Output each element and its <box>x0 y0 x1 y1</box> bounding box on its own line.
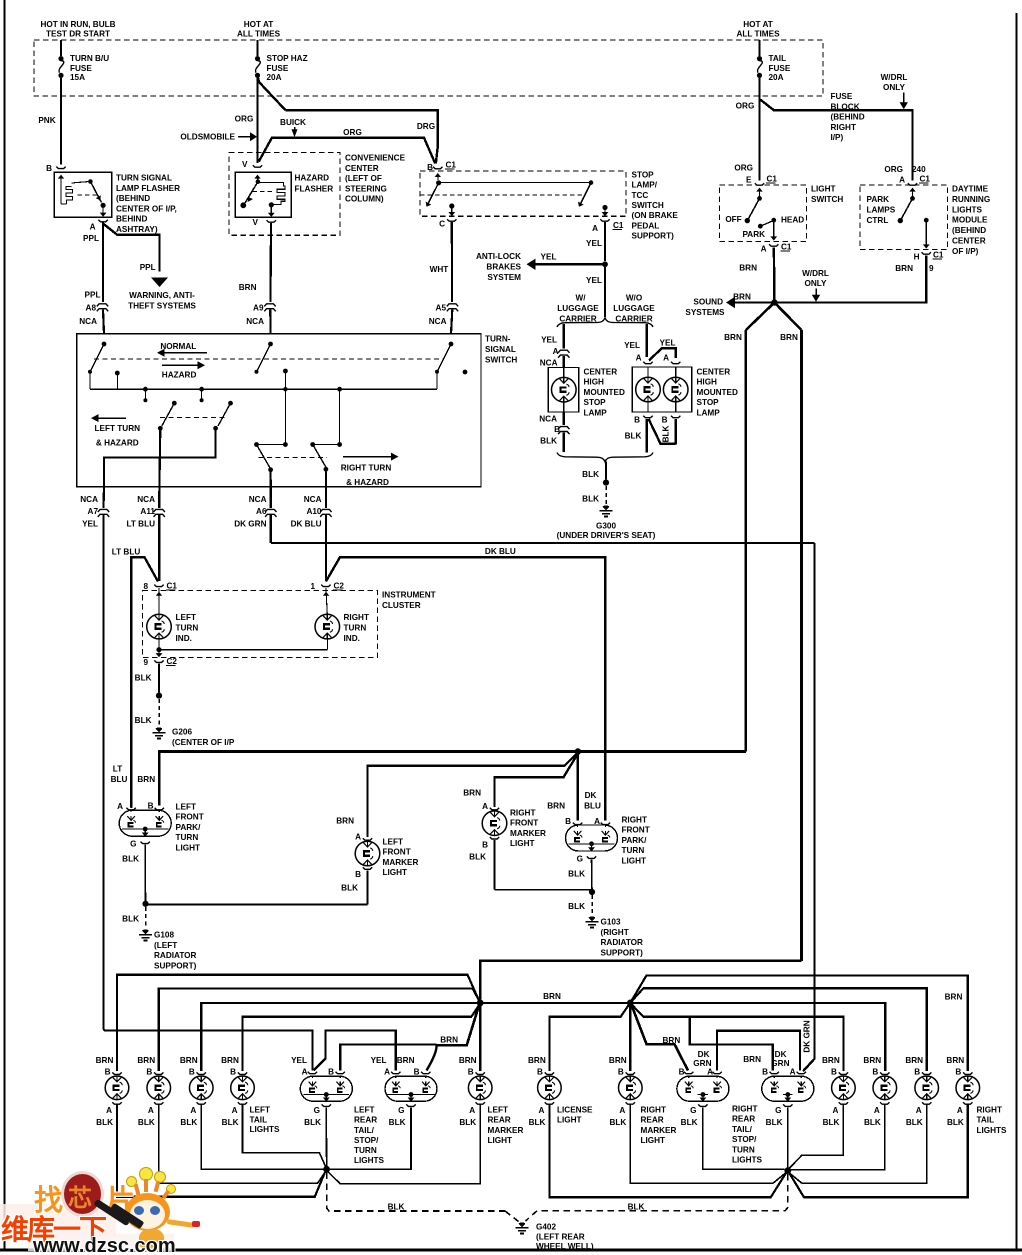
svg-text:STOP: STOP <box>697 398 720 407</box>
svg-text:LEFT: LEFT <box>250 1106 270 1115</box>
right tail light bulb 2 <box>880 1072 889 1074</box>
wire BLK stadium2 G to junction <box>330 1108 411 1170</box>
svg-text:FUSE: FUSE <box>769 64 791 73</box>
svg-text:W/DRL: W/DRL <box>881 73 908 82</box>
watermark mascot <box>125 1193 170 1231</box>
svg-text:HAZARD: HAZARD <box>295 174 330 183</box>
svg-text:CTRL: CTRL <box>867 216 889 225</box>
svg-text:B: B <box>679 1068 685 1077</box>
svg-text:TEST DR START: TEST DR START <box>46 30 110 39</box>
svg-text:LIGHT: LIGHT <box>383 868 408 877</box>
switch pivots row 1 <box>102 342 107 347</box>
svg-text:BRN: BRN <box>733 293 751 302</box>
svg-text:BLK: BLK <box>568 870 585 879</box>
svg-text:C1: C1 <box>767 175 778 184</box>
wire DK GRN down right side <box>803 543 815 1071</box>
svg-text:REAR: REAR <box>354 1116 377 1125</box>
svg-text:REAR: REAR <box>488 1116 511 1125</box>
wire DRG diagonal from stop haz fuse <box>258 76 286 110</box>
dashed BLK to G402 (left) <box>327 1173 505 1211</box>
svg-text:ORG: ORG <box>736 102 755 111</box>
svg-text:NORMAL: NORMAL <box>160 342 196 351</box>
svg-text:B: B <box>618 1068 624 1077</box>
svg-text:YEL: YEL <box>660 339 676 348</box>
svg-text:HOT AT: HOT AT <box>743 20 773 29</box>
svg-text:(ON BRAKE: (ON BRAKE <box>632 211 679 220</box>
svg-text:B: B <box>146 1068 152 1077</box>
svg-text:B: B <box>914 1068 920 1077</box>
svg-text:YEL: YEL <box>291 1056 307 1065</box>
svg-text:NCA: NCA <box>246 317 264 326</box>
svg-text:STOP HAZ: STOP HAZ <box>267 54 308 63</box>
svg-text:BRN: BRN <box>609 1056 627 1065</box>
svg-text:LEFT: LEFT <box>383 838 403 847</box>
svg-text:LAMP: LAMP <box>584 408 608 417</box>
svg-text:B: B <box>482 841 488 850</box>
wire BLK bulb7 to junction <box>791 1105 885 1170</box>
svg-text:PARK/: PARK/ <box>176 823 202 832</box>
wire BRN from DRL to junction <box>774 255 926 302</box>
svg-text:G206: G206 <box>172 728 192 737</box>
svg-text:(BEHIND: (BEHIND <box>831 113 865 122</box>
svg-text:PNK: PNK <box>38 116 55 125</box>
wire BRN park bus <box>159 752 746 806</box>
wire BRN to junction (left) <box>437 1005 480 1045</box>
svg-text:A: A <box>899 176 905 185</box>
svg-text:GRN: GRN <box>771 1059 789 1068</box>
watermark weiku yixia <box>1 1208 105 1248</box>
svg-text:(LEFT REAR: (LEFT REAR <box>536 1233 585 1242</box>
svg-text:CENTER: CENTER <box>345 164 379 173</box>
wire BRN bus row 1 <box>117 975 479 1071</box>
wire LT BLU branch <box>131 557 158 805</box>
dashed BLK to G402 (right) <box>537 1174 788 1211</box>
svg-text:IND.: IND. <box>176 634 192 643</box>
svg-text:G: G <box>314 1106 320 1115</box>
svg-text:DK: DK <box>775 1050 787 1059</box>
wire BLK right marker to junction <box>630 1105 786 1184</box>
svg-text:LIGHT: LIGHT <box>176 843 201 852</box>
svg-text:G: G <box>577 855 583 864</box>
svg-text:INSTRUMENT: INSTRUMENT <box>382 591 436 600</box>
svg-text:RIGHT: RIGHT <box>510 809 535 818</box>
svg-text:LIGHTS: LIGHTS <box>732 1156 763 1165</box>
wire BLK left marker to junction <box>328 1105 480 1184</box>
wire BRN left branch down to park bus <box>745 330 748 752</box>
wire BLK bulb2 to junction <box>159 1105 326 1184</box>
svg-text:LICENSE: LICENSE <box>557 1106 593 1115</box>
turn signal switch (box) <box>77 334 481 487</box>
svg-text:ORG: ORG <box>884 165 903 174</box>
sound systems arrow <box>733 301 774 303</box>
junction to ABS <box>602 261 608 267</box>
wire BRN right branch down to rear <box>800 330 803 961</box>
svg-text:BLK: BLK <box>609 1118 626 1127</box>
svg-text:G402: G402 <box>536 1223 556 1232</box>
svg-text:C2: C2 <box>334 582 345 591</box>
wire BRN right stadium 3 B <box>632 1005 688 1070</box>
svg-text:BRN: BRN <box>863 1056 881 1065</box>
svg-text:A10: A10 <box>306 507 321 516</box>
svg-text:B: B <box>46 164 52 173</box>
wire BRN to left front marker <box>368 753 578 838</box>
connector 9 C2 <box>154 660 163 662</box>
svg-text:TURN: TURN <box>344 624 367 633</box>
svg-text:TURN: TURN <box>354 1146 377 1155</box>
svg-text:BRN: BRN <box>724 333 742 342</box>
svg-text:LEFT: LEFT <box>176 803 196 812</box>
license light bulb <box>545 1072 554 1074</box>
convenience center (dashed box) <box>229 153 340 236</box>
svg-text:B: B <box>762 1068 768 1077</box>
wire to A6 output <box>270 470 272 487</box>
ground G103 <box>589 917 596 922</box>
svg-text:BRAKES: BRAKES <box>486 263 521 272</box>
svg-text:BRN: BRN <box>239 283 257 292</box>
merge brace <box>557 453 653 462</box>
watermark backing strips <box>0 1204 116 1237</box>
wire BLK to G103 junction <box>495 889 593 891</box>
svg-text:HOT AT: HOT AT <box>244 20 274 29</box>
connector A10 DK BLU <box>325 487 327 508</box>
svg-text:FUSE: FUSE <box>831 92 853 101</box>
svg-text:NCA: NCA <box>80 495 98 504</box>
svg-text:HOT IN RUN, BULB: HOT IN RUN, BULB <box>40 20 115 29</box>
svg-text:CENTER: CENTER <box>584 368 618 377</box>
right rear stop/turn stadium 3 <box>684 1072 693 1074</box>
svg-text:BLK: BLK <box>823 1118 840 1127</box>
svg-text:ONLY: ONLY <box>883 83 906 92</box>
svg-text:A: A <box>874 1106 880 1115</box>
svg-text:TAIL: TAIL <box>769 54 787 63</box>
wire ORG stop-haz fuse down <box>256 78 258 163</box>
svg-text:DK BLU: DK BLU <box>291 520 322 529</box>
terminals A A <box>643 362 652 364</box>
svg-text:(BEHIND: (BEHIND <box>116 194 150 203</box>
wire BRN stadium 4 B feed <box>690 1017 773 1071</box>
svg-text:BUICK: BUICK <box>280 118 306 127</box>
svg-text:SIGNAL: SIGNAL <box>485 345 516 354</box>
center high mounted stop lamp (dual) <box>632 367 691 412</box>
left tail light bulb 4 <box>238 1072 247 1074</box>
svg-text:B: B <box>328 1068 334 1077</box>
svg-text:A9: A9 <box>253 304 264 313</box>
svg-text:STOP: STOP <box>632 171 655 180</box>
svg-text:HIGH: HIGH <box>584 378 605 387</box>
svg-text:OF I/P): OF I/P) <box>952 247 979 256</box>
svg-text:FRONT: FRONT <box>622 826 650 835</box>
wire DK GRN bus <box>271 542 815 544</box>
svg-text:BLK: BLK <box>681 1118 698 1127</box>
terminal C <box>449 203 454 208</box>
svg-text:20A: 20A <box>769 73 784 82</box>
svg-text:BRN: BRN <box>96 1056 114 1065</box>
svg-text:NCA: NCA <box>249 495 267 504</box>
svg-text:BRN: BRN <box>905 1056 923 1065</box>
svg-text:YEL: YEL <box>541 253 557 262</box>
svg-text:BLK: BLK <box>947 1118 964 1127</box>
svg-text:A: A <box>619 1106 625 1115</box>
wire to A7 output <box>104 428 216 486</box>
svg-text:BLK: BLK <box>341 884 358 893</box>
svg-text:BLK: BLK <box>906 1118 923 1127</box>
svg-text:STEERING: STEERING <box>345 184 387 193</box>
svg-text:ORG: ORG <box>734 164 753 173</box>
svg-text:B: B <box>148 802 154 811</box>
watermark magnifier <box>61 1171 104 1217</box>
svg-text:BLK: BLK <box>540 437 557 446</box>
svg-text:B: B <box>831 1068 837 1077</box>
svg-text:BLK: BLK <box>138 1118 155 1127</box>
svg-text:MARKER: MARKER <box>641 1126 677 1135</box>
svg-text:(UNDER DRIVER'S SEAT): (UNDER DRIVER'S SEAT) <box>557 531 656 540</box>
svg-text:LUGGAGE: LUGGAGE <box>613 304 655 313</box>
svg-text:TAIL/: TAIL/ <box>354 1126 375 1135</box>
svg-text:THEFT SYSTEMS: THEFT SYSTEMS <box>128 301 196 310</box>
svg-text:B: B <box>414 1068 420 1077</box>
wire DK BLU branch <box>326 557 605 820</box>
svg-text:HAZARD: HAZARD <box>162 371 197 380</box>
svg-text:TURN B/U: TURN B/U <box>70 54 109 63</box>
svg-text:SWITCH: SWITCH <box>811 195 843 204</box>
svg-text:CENTER: CENTER <box>952 237 986 246</box>
wire PNK from turn fuse to flasher <box>60 96 62 165</box>
svg-text:BLK: BLK <box>388 1203 405 1212</box>
svg-text:YEL: YEL <box>371 1056 387 1065</box>
svg-text:NCA: NCA <box>304 495 322 504</box>
svg-text:BRN: BRN <box>180 1056 198 1065</box>
instrument cluster (dashed box) <box>143 591 378 658</box>
svg-text:DRG: DRG <box>417 122 435 131</box>
svg-text:PPL: PPL <box>85 291 101 300</box>
fuse block (dashed box) <box>34 40 823 96</box>
svg-text:LAMP/: LAMP/ <box>632 181 658 190</box>
svg-text:LIGHTS: LIGHTS <box>952 205 983 214</box>
wire ORG tail fuse to light switch <box>758 78 760 181</box>
svg-text:LIGHT: LIGHT <box>811 185 836 194</box>
wire BRN bus row 3 <box>201 1003 885 1071</box>
svg-text:TAIL: TAIL <box>977 1116 995 1125</box>
gang dashed line 1 <box>94 358 443 360</box>
svg-text:BLK: BLK <box>122 855 139 864</box>
fixed contacts row 1 <box>115 371 120 376</box>
wire BRN to A9 <box>269 223 272 302</box>
svg-text:RIGHT: RIGHT <box>641 1106 666 1115</box>
svg-text:BLK: BLK <box>304 1118 321 1127</box>
svg-text:YEL: YEL <box>586 239 602 248</box>
wire BLK bulb9 to junction <box>790 1105 968 1198</box>
connector A9 <box>264 304 275 307</box>
svg-text:MARKER: MARKER <box>510 829 546 838</box>
svg-text:A: A <box>190 1106 196 1115</box>
wire BRN cross link <box>480 961 801 1000</box>
svg-text:G: G <box>775 1106 781 1115</box>
junction BRN rear right <box>627 1000 634 1007</box>
svg-text:BRN: BRN <box>463 789 481 798</box>
wire PPL down to A8 <box>102 223 104 303</box>
right tail light bulb 1 <box>839 1072 848 1074</box>
svg-text:CENTER OF I/P,: CENTER OF I/P, <box>116 204 177 213</box>
svg-text:LAMP: LAMP <box>697 408 721 417</box>
wire YEL rear bus <box>104 1029 313 1070</box>
svg-text:& HAZARD: & HAZARD <box>346 478 389 487</box>
svg-text:YEL: YEL <box>541 336 557 345</box>
switch contacts <box>428 183 439 205</box>
ground G300 <box>603 506 610 511</box>
svg-text:LIGHTS: LIGHTS <box>354 1156 385 1165</box>
svg-text:BRN: BRN <box>822 1056 840 1065</box>
svg-text:& HAZARD: & HAZARD <box>96 439 139 448</box>
svg-text:TURN: TURN <box>176 624 199 633</box>
svg-text:H: H <box>914 253 920 262</box>
bus contact stubs <box>143 387 148 392</box>
svg-text:(LEFT OF: (LEFT OF <box>345 174 382 183</box>
svg-text:OFF: OFF <box>725 215 741 224</box>
svg-text:WARNING, ANTI-: WARNING, ANTI- <box>129 291 195 300</box>
svg-text:A5: A5 <box>436 304 447 313</box>
svg-text:RADIATOR: RADIATOR <box>154 951 197 960</box>
svg-text:BLK: BLK <box>135 674 152 683</box>
junction BRN front lights <box>575 748 581 754</box>
svg-text:A: A <box>790 1068 796 1077</box>
svg-text:LT BLU: LT BLU <box>127 520 156 529</box>
wire BLK license to junction <box>549 1105 786 1198</box>
svg-text:IND.: IND. <box>344 634 360 643</box>
svg-text:C1: C1 <box>920 175 931 184</box>
svg-text:WHEEL WELL): WHEEL WELL) <box>536 1242 594 1251</box>
svg-text:G300: G300 <box>596 522 616 531</box>
svg-text:ASHTRAY): ASHTRAY) <box>116 225 158 234</box>
fuse TAIL 20A <box>759 40 761 56</box>
ground G402 <box>519 1223 526 1228</box>
svg-text:B: B <box>468 1068 474 1077</box>
watermark pian char <box>106 1177 135 1219</box>
svg-text:BLK: BLK <box>222 1118 239 1127</box>
svg-text:DK GRN: DK GRN <box>234 520 266 529</box>
svg-text:I/P): I/P) <box>831 133 844 142</box>
svg-text:BRN: BRN <box>440 1036 458 1045</box>
svg-text:BLK: BLK <box>864 1118 881 1127</box>
wire ORG bus to stop lamp switch <box>259 138 435 164</box>
svg-text:SUPPORT): SUPPORT) <box>601 948 644 957</box>
svg-text:BLK: BLK <box>459 1118 476 1127</box>
svg-text:BRN: BRN <box>946 1056 964 1065</box>
svg-text:RIGHT: RIGHT <box>977 1106 1002 1115</box>
svg-text:W/O: W/O <box>626 294 643 303</box>
svg-text:A: A <box>707 1068 713 1077</box>
svg-text:A: A <box>761 245 767 254</box>
svg-text:BRN: BRN <box>945 993 963 1002</box>
svg-text:C1: C1 <box>167 582 178 591</box>
svg-text:A: A <box>90 223 96 232</box>
connector A7 YEL <box>102 487 105 508</box>
svg-text:G: G <box>130 840 136 849</box>
svg-text:BRN: BRN <box>663 1036 681 1045</box>
svg-text:20A: 20A <box>267 73 282 82</box>
svg-text:TCC: TCC <box>632 191 649 200</box>
svg-text:A7: A7 <box>88 507 99 516</box>
svg-text:(RIGHT: (RIGHT <box>601 928 629 937</box>
svg-text:LT BLU: LT BLU <box>112 548 141 557</box>
svg-text:LEFT: LEFT <box>354 1106 374 1115</box>
svg-text:REAR: REAR <box>732 1115 755 1124</box>
svg-text:BLK: BLK <box>135 716 152 725</box>
wire BLK bulb8 to junction <box>789 1105 927 1184</box>
svg-text:COLUMN): COLUMN) <box>345 195 384 204</box>
svg-text:BLK: BLK <box>389 1118 406 1127</box>
internal bus <box>90 388 437 390</box>
svg-text:MODULE: MODULE <box>952 216 988 225</box>
terminal A C1 bottom <box>769 244 778 246</box>
svg-text:NCA: NCA <box>429 317 447 326</box>
svg-text:MOUNTED: MOUNTED <box>584 388 625 397</box>
wire BLK stadium3 G to junction <box>703 1108 785 1170</box>
svg-text:LEFT: LEFT <box>176 613 196 622</box>
svg-text:LIGHT: LIGHT <box>510 839 535 848</box>
svg-text:STOP/: STOP/ <box>732 1135 757 1144</box>
svg-text:BRN: BRN <box>528 1056 546 1065</box>
svg-text:LIGHTS: LIGHTS <box>977 1126 1008 1135</box>
svg-text:TURN: TURN <box>732 1145 755 1154</box>
wire BRN to left rear marker <box>479 1003 481 1071</box>
left tail light bulb 1 <box>112 1072 121 1074</box>
right rear stop/turn stadium 4 <box>770 1072 779 1074</box>
svg-text:BRN: BRN <box>895 264 913 273</box>
wire BRN to right rear marker <box>629 1003 631 1071</box>
svg-text:TURN-: TURN- <box>485 335 511 344</box>
wire BLK bulb6 to junction <box>789 1105 843 1169</box>
svg-text:PARK: PARK <box>742 230 765 239</box>
page border bottom <box>0 1248 1022 1251</box>
svg-text:YEL: YEL <box>624 341 640 350</box>
svg-text:DK: DK <box>585 791 597 800</box>
watermark zhao char <box>34 1177 63 1219</box>
svg-text:BRN: BRN <box>397 1056 415 1065</box>
svg-text:ORG: ORG <box>343 128 362 137</box>
svg-text:A: A <box>592 224 598 233</box>
svg-text:BRN: BRN <box>336 817 354 826</box>
svg-text:LT: LT <box>113 765 122 774</box>
svg-text:A: A <box>469 1106 475 1115</box>
svg-text:RIGHT: RIGHT <box>622 816 647 825</box>
svg-text:A: A <box>538 1106 544 1115</box>
svg-text:A6: A6 <box>256 507 267 516</box>
wire BLK bulb4 to junction <box>243 1105 327 1168</box>
svg-text:BRN: BRN <box>137 775 155 784</box>
svg-text:LIGHT: LIGHT <box>488 1136 513 1145</box>
watermark www.dzsc.com <box>33 1235 176 1255</box>
svg-text:CLUSTER: CLUSTER <box>382 601 421 610</box>
svg-text:8: 8 <box>143 582 148 591</box>
svg-text:BRN: BRN <box>221 1056 239 1065</box>
svg-text:PARK: PARK <box>867 195 890 204</box>
svg-text:B: B <box>537 1068 543 1077</box>
svg-text:B: B <box>662 416 668 425</box>
svg-text:A: A <box>832 1106 838 1115</box>
svg-text:RIGHT: RIGHT <box>344 613 369 622</box>
svg-text:C1: C1 <box>781 243 792 252</box>
wire BLK jumper <box>649 419 676 444</box>
svg-text:DK BLU: DK BLU <box>485 547 516 556</box>
svg-text:MOUNTED: MOUNTED <box>697 388 738 397</box>
svg-text:RIGHT: RIGHT <box>732 1105 757 1114</box>
svg-text:(BEHIND: (BEHIND <box>952 226 986 235</box>
svg-text:240: 240 <box>912 165 926 174</box>
svg-text:BLK: BLK <box>582 495 599 504</box>
svg-text:A: A <box>232 1106 238 1115</box>
wire to A10 output <box>325 469 327 486</box>
terminal G <box>587 856 596 858</box>
